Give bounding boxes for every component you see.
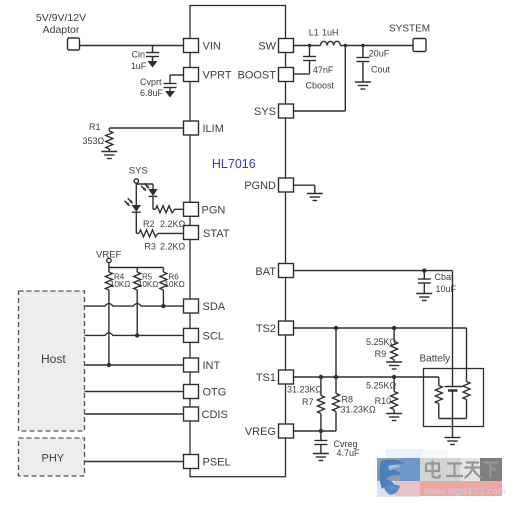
svg-text:10KΩ: 10KΩ <box>110 280 130 289</box>
svg-text:VIN: VIN <box>203 41 221 53</box>
svg-text:10KΩ: 10KΩ <box>165 280 185 289</box>
svg-text:SYS: SYS <box>254 106 276 118</box>
svg-text:1uF: 1uF <box>131 61 147 71</box>
svg-text:VREF: VREF <box>96 250 122 261</box>
svg-text:31.23KΩ: 31.23KΩ <box>287 385 323 395</box>
svg-text:SYSTEM: SYSTEM <box>389 24 430 35</box>
svg-text:SCL: SCL <box>203 330 224 342</box>
svg-text:VPRT: VPRT <box>203 70 232 82</box>
svg-text:Cin: Cin <box>132 50 146 60</box>
svg-text:20uF: 20uF <box>369 48 390 58</box>
svg-text:L1: L1 <box>309 28 319 38</box>
svg-text:OTG: OTG <box>203 387 227 399</box>
svg-text:31.23KΩ: 31.23KΩ <box>341 404 377 414</box>
svg-text:TS1: TS1 <box>256 372 276 384</box>
svg-text:INT: INT <box>203 360 221 372</box>
svg-text:R8: R8 <box>342 395 354 405</box>
svg-text:SDA: SDA <box>203 301 226 313</box>
svg-text:R10: R10 <box>375 396 392 406</box>
svg-text:Cbat: Cbat <box>435 272 455 282</box>
svg-text:6.8uF: 6.8uF <box>140 88 164 98</box>
svg-text:VREG: VREG <box>245 426 276 438</box>
svg-text:2.2KΩ: 2.2KΩ <box>160 242 186 252</box>
svg-text:ILIM: ILIM <box>203 123 224 135</box>
svg-text:PGN: PGN <box>202 204 226 216</box>
svg-text:R7: R7 <box>302 397 314 407</box>
svg-text:1uH: 1uH <box>322 28 339 38</box>
svg-text:STAT: STAT <box>203 228 230 240</box>
svg-text:Battely: Battely <box>420 354 451 365</box>
svg-text:10KΩ: 10KΩ <box>138 280 158 289</box>
svg-text:R9: R9 <box>375 349 387 359</box>
svg-text:R3: R3 <box>144 242 156 252</box>
svg-text:SW: SW <box>258 41 276 53</box>
svg-text:PHY: PHY <box>42 453 65 465</box>
svg-text:5.25KΩ: 5.25KΩ <box>366 337 397 347</box>
svg-text:www.dgjs123.com: www.dgjs123.com <box>423 486 507 497</box>
svg-text:Cvprt: Cvprt <box>140 77 162 87</box>
svg-text:PGND: PGND <box>244 180 276 192</box>
svg-text:Cboost: Cboost <box>306 81 335 91</box>
svg-text:CDIS: CDIS <box>202 409 228 421</box>
svg-text:PSEL: PSEL <box>203 457 231 469</box>
svg-text:5.25KΩ: 5.25KΩ <box>366 381 397 391</box>
svg-text:5V/9V/12V: 5V/9V/12V <box>36 12 86 24</box>
svg-text:4.7uF: 4.7uF <box>337 448 361 458</box>
svg-text:HL7016: HL7016 <box>212 157 256 171</box>
svg-text:BOOST: BOOST <box>237 70 276 82</box>
svg-text:47nF: 47nF <box>313 65 334 75</box>
svg-text:353Ω: 353Ω <box>83 136 105 146</box>
svg-text:Host: Host <box>41 352 66 366</box>
svg-text:Adaptor: Adaptor <box>43 24 80 36</box>
svg-text:Cout: Cout <box>371 64 391 74</box>
svg-text:SYS: SYS <box>129 166 148 177</box>
svg-text:10uF: 10uF <box>436 284 457 294</box>
svg-text:2.2KΩ: 2.2KΩ <box>160 219 186 229</box>
svg-text:TS2: TS2 <box>256 323 276 335</box>
svg-text:BAT: BAT <box>255 266 276 278</box>
svg-text:R1: R1 <box>89 122 101 132</box>
svg-text:R2: R2 <box>143 219 155 229</box>
